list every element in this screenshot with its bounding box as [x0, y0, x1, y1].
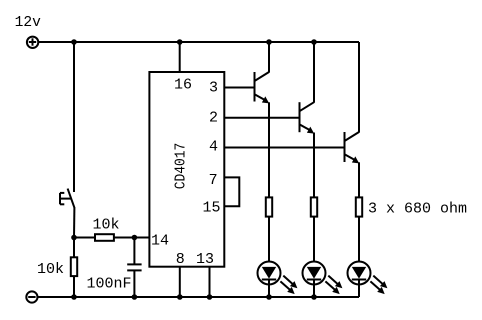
wire from junction to 10k horizontal resistor — [74, 237, 95, 239]
svg-text:10k: 10k — [37, 261, 64, 278]
resistor 10k horizontal body — [95, 234, 114, 241]
junction top rail / left branch — [71, 39, 77, 45]
junction left branch / 10k horizontal resistor — [71, 235, 77, 241]
wire left branch below switch — [73, 208, 75, 238]
svg-text:100nF: 100nF — [87, 276, 132, 293]
pushbutton switch S1 — [60, 189, 75, 208]
resistor 680 ohm body (third) — [356, 197, 362, 216]
LED D3 — [348, 262, 388, 295]
wire bottom supply rail — [38, 296, 360, 298]
junction top rail / Q2 collector — [311, 39, 317, 45]
resistor 10k vertical body — [71, 257, 77, 276]
wire Q1 collector to top rail — [268, 42, 270, 73]
svg-text:15: 15 — [203, 199, 221, 216]
LED D1 — [258, 262, 298, 295]
wire pin 4 to Q3 base — [224, 147, 344, 149]
IC U1 CD4017 body — [149, 72, 224, 267]
wire pin 3 to Q1 base — [224, 87, 254, 89]
wire LED D2 to bottom rail — [313, 280, 315, 298]
svg-text:4: 4 — [209, 139, 218, 156]
junction top rail / Q1 collector — [266, 39, 272, 45]
junction bottom rail / capacitor — [132, 294, 138, 300]
junction top rail / pin 16 — [177, 39, 183, 45]
svg-text:CD4017: CD4017 — [172, 143, 189, 190]
junction bottom rail / LED D2 — [311, 294, 317, 300]
svg-text:16: 16 — [174, 76, 192, 93]
LED D2 — [303, 262, 343, 295]
wire LED D1 to bottom rail — [268, 280, 270, 298]
wire pin 13 to bottom rail — [209, 267, 211, 297]
svg-text:7: 7 — [209, 172, 218, 189]
wire Q1 emitter down to resistor — [268, 102, 270, 197]
transistor Q2 — [300, 102, 315, 133]
transistor Q1 — [255, 72, 270, 103]
svg-text:12v: 12v — [15, 15, 42, 31]
wire top supply rail — [39, 41, 360, 43]
svg-text:8: 8 — [176, 251, 185, 268]
svg-text:3: 3 — [209, 80, 218, 97]
wire pin 8 to bottom rail — [179, 267, 181, 297]
wire resistor to LED D3 — [358, 217, 360, 267]
wire pin 16 to top rail — [179, 42, 181, 72]
wire 10k resistor to IC pin 14 — [114, 237, 149, 239]
negative supply terminal - — [26, 291, 37, 302]
junction bottom rail / left branch — [71, 294, 77, 300]
transistor Q3 — [345, 132, 360, 163]
junction bottom rail / pin 8 — [177, 294, 183, 300]
capacitor 100nF — [127, 238, 141, 298]
wire Q2 collector to top rail — [313, 42, 315, 103]
svg-text:14: 14 — [151, 232, 169, 249]
svg-text:2: 2 — [209, 110, 218, 127]
resistor 680 ohm body (first) — [266, 197, 272, 216]
svg-text:3 x 680 ohm: 3 x 680 ohm — [368, 201, 467, 218]
wire Q2 emitter down to resistor — [313, 133, 315, 198]
wire left branch upper — [73, 42, 75, 192]
junction pin14 wire / capacitor branch — [132, 235, 138, 241]
wire left branch lower (through vertical resistor) — [73, 238, 75, 298]
junction bottom rail / pin 13 — [207, 294, 213, 300]
resistor 680 ohm body (second) — [311, 197, 317, 216]
wire pin 2 to Q2 base — [224, 117, 299, 119]
wire Q3 emitter down to resistor — [358, 162, 360, 197]
wire resistor to LED D1 — [268, 217, 270, 267]
wire resistor to LED D2 — [313, 217, 315, 267]
svg-text:13: 13 — [196, 251, 214, 268]
positive supply terminal + — [27, 37, 38, 48]
junction bottom rail / LED D1 — [266, 294, 272, 300]
wire top rail corner down to Q3 collector — [358, 42, 360, 133]
svg-text:10k: 10k — [93, 217, 120, 234]
wire LED D3 to bottom rail — [358, 280, 360, 298]
wire pin 7 to pin 15 loop — [224, 177, 239, 206]
